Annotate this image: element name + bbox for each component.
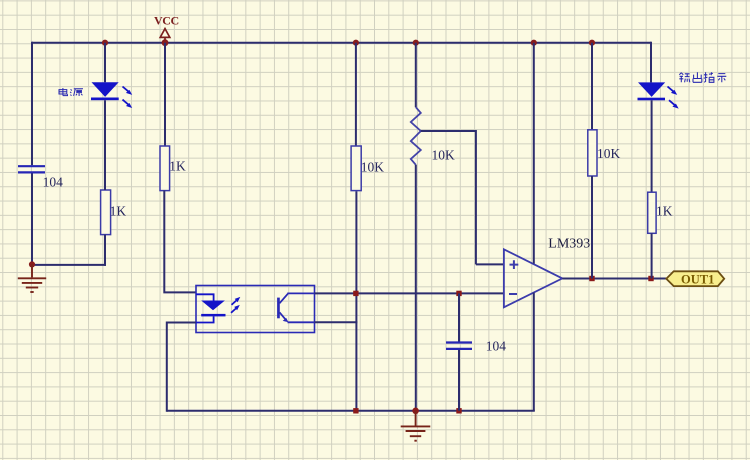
op-amp U2 triangle	[504, 249, 562, 307]
junction at left ground	[29, 261, 35, 267]
label dianyuan (power) char 1	[59, 88, 68, 96]
optocoupler U1 box	[196, 286, 315, 333]
LED D2 arrow 2	[669, 100, 679, 108]
wire bottom ground rail	[167, 410, 535, 412]
potentiometer R4 zigzag	[411, 107, 421, 165]
svg-text:1K: 1K	[169, 159, 186, 174]
wire left rail upper	[31, 42, 33, 166]
optocoupler transistor base bar	[277, 298, 280, 319]
svg-text:1K: 1K	[110, 204, 127, 219]
junction dot (355.9,410.8)	[353, 408, 358, 413]
wire opto cathode down leg	[167, 322, 196, 412]
ground GND1	[18, 264, 46, 292]
junction dot (415.6,410.8)	[412, 408, 419, 415]
svg-text:104: 104	[486, 339, 507, 354]
LED D2 arrow 1	[668, 87, 678, 95]
label shuchuzhishi (output indicator) char 1	[679, 73, 690, 83]
resistor R3 body	[351, 146, 361, 191]
optocoupler LED triangle	[201, 301, 225, 311]
LED D2 triangle	[638, 82, 665, 97]
LED D1 arrow 2	[123, 100, 133, 108]
junction dot (459,293.4)	[456, 291, 461, 296]
wire collector to opamp minus input	[315, 292, 504, 294]
LED D1 triangle	[92, 82, 119, 97]
svg-text:1K: 1K	[656, 204, 673, 219]
wire R6 bottom	[651, 233, 653, 278]
wire op-amp V- pin	[533, 293, 535, 411]
svg-text:10K: 10K	[597, 146, 621, 161]
resistor R6 body	[648, 192, 656, 233]
junction dot (533.8,42.7)	[531, 40, 537, 46]
port OUT1 flag	[666, 271, 724, 286]
label shuchuzhishi char 2	[693, 72, 702, 82]
junction dot (355.9,293.4)	[353, 291, 358, 296]
label shuchuzhishi char 3	[704, 72, 714, 82]
svg-text:104: 104	[43, 175, 64, 190]
wire R2 bottom to opto anode	[163, 191, 196, 293]
svg-text:VCC: VCC	[154, 13, 179, 27]
wire top rail corner down to LED D2	[650, 42, 652, 83]
wire cap C2 top lead	[458, 293, 460, 341]
op-amp plus input symbol	[510, 260, 519, 269]
resistor R1 body	[101, 190, 111, 235]
op-amp minus input symbol	[509, 293, 517, 295]
LED D2 cathode bar	[638, 98, 666, 101]
optocoupler LED cathode bar	[201, 314, 225, 317]
capacitor C1 plates	[18, 166, 45, 172]
wire left rail lower	[31, 173, 33, 264]
power symbol VCC	[160, 29, 170, 42]
wire cap C2 bottom lead	[458, 350, 460, 411]
optocoupler arrow 2	[231, 305, 240, 313]
wire LED D2 to R6	[651, 100, 653, 192]
optocoupler transistor collector	[280, 293, 315, 303]
junction dot (592,42.7)	[589, 40, 595, 46]
wire R1 bottom	[104, 235, 106, 266]
wire pot wiper tap	[421, 130, 504, 264]
label shuchuzhishi char 4	[717, 74, 726, 83]
wire R3 bottom vertical down to bottom rail	[355, 191, 357, 410]
wire op-amp output	[562, 278, 666, 280]
wire pot bottom to ground rail	[415, 165, 417, 411]
junction dot (105,42.7)	[102, 40, 108, 46]
wire R5 bottom	[591, 176, 593, 279]
ground GND2	[401, 411, 431, 441]
optocoupler LED cathode lead	[196, 316, 214, 322]
resistor R5 body	[588, 130, 597, 176]
junction dot (415.8,42.7)	[413, 40, 419, 46]
wire op-amp V+ pin	[533, 43, 535, 264]
junction dot (592,278.5)	[589, 276, 594, 281]
wire top rail	[32, 42, 651, 44]
junction dot (651,278.5)	[648, 276, 653, 281]
wire LED D1 anode	[104, 43, 106, 83]
LED D1 cathode bar	[91, 98, 119, 101]
junction dot (459,410.8)	[456, 408, 461, 413]
wire LED D1 cathode to R1	[104, 100, 106, 190]
junction dot (165,42.7)	[162, 39, 169, 46]
optocoupler arrow 1	[232, 297, 241, 305]
wire emitter to vertical	[315, 321, 358, 323]
svg-text:LM393: LM393	[548, 237, 590, 252]
optocoupler LED anode lead	[196, 294, 214, 300]
capacitor C2 plates	[446, 343, 472, 349]
resistor R2 body	[160, 146, 170, 191]
wire pot top	[415, 43, 417, 108]
svg-text:10K: 10K	[432, 148, 456, 163]
optocoupler transistor emitter with arrowhead	[280, 312, 315, 322]
junction dot (355.9,42.7)	[353, 40, 359, 46]
svg-text:OUT1: OUT1	[681, 273, 714, 287]
LED D1 arrow 1	[123, 87, 133, 95]
wire R2 top	[164, 43, 166, 146]
wire R5 top	[591, 43, 593, 130]
label dianyuan (power) char 2	[70, 89, 83, 96]
wire R3 top	[355, 43, 357, 146]
svg-text:10K: 10K	[361, 159, 385, 174]
wire bottom-left horizontal	[32, 264, 106, 266]
